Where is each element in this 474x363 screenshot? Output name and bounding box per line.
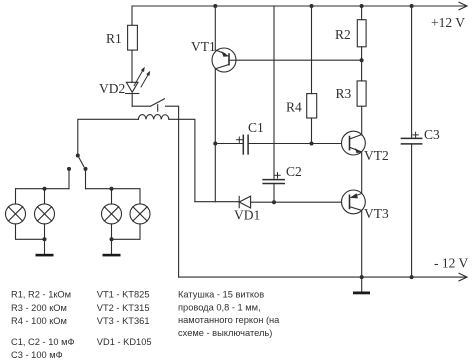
svg-text:R3: R3 [336,86,352,101]
svg-text:VT3: VT3 [364,206,389,221]
lamp HL1 [6,204,26,224]
switch SA1 blade [78,156,84,167]
node junction C3 -12V [410,275,414,279]
wire lamp C bottom lead [111,224,113,239]
wire coil right lead [169,119,195,201]
wire -12V bottom rail [179,276,466,278]
svg-text:C1: C1 [248,120,264,135]
LED VD2 [126,82,139,106]
svg-text:схеме - выключатель): схеме - выключатель) [178,328,272,338]
wire R3 to VT2 collector [361,106,363,135]
node C3 plus [413,132,418,137]
ground -12V rail [353,292,370,295]
svg-text:намотанного геркон (на: намотанного геркон (на [178,315,280,325]
node junction R2 +12V [360,4,364,8]
ground right [103,254,121,257]
svg-text:VT2 - KT315: VT2 - KT315 [97,303,150,313]
svg-text:+12 V: +12 V [431,15,465,30]
node junction C2 VD1 line [272,200,276,204]
wire lamp B top lead [44,189,46,204]
wire ground stem -12V [361,277,363,291]
wire R1 to VD2 [131,50,133,82]
node C2 plus [275,173,280,178]
diode VD1 [239,196,250,208]
node VD2 emission arrows [134,67,150,87]
wire VT1 base line [236,59,362,61]
resistor R3 [357,81,366,106]
node junction R4 C1 line [310,142,314,146]
node junction R4 +12V [310,4,314,8]
wire VD1 line left [195,201,239,203]
wire left contact down [68,169,70,189]
wire VT1 emitter to +12V [214,6,216,50]
svg-text:VT1: VT1 [191,39,216,54]
switch SA1 pivot [76,154,80,158]
node +12V arrowhead [459,2,467,10]
svg-text:C1, C2 - 10 мФ: C1, C2 - 10 мФ [11,337,75,347]
transistor VT3 [342,190,366,214]
wire left lamp pair top [16,189,70,204]
svg-text:провода 0,8 - 1 мм,: провода 0,8 - 1 мм, [178,302,261,312]
node parts list column 1 [11,290,75,361]
node junction VT1 +12V [213,4,217,8]
wire R4 bottom [311,118,313,144]
lamp HL3 [102,204,122,224]
svg-text:R1, R2 - 1кОм: R1, R2 - 1кОм [11,290,71,300]
wire VT2 emitter to VT3 emitter [361,152,363,194]
svg-text:VD1: VD1 [234,208,260,223]
wire lamp C top lead [111,189,113,204]
svg-text:VT2: VT2 [364,148,389,163]
node C1 plus [237,137,242,142]
node junction lamp C top [110,187,114,191]
svg-text:C3 - 100 мФ: C3 - 100 мФ [11,350,63,360]
switch reed blade [150,99,164,106]
wire right lamp pair top [86,189,141,204]
node junction lamp B bottom [43,237,47,241]
svg-text:C3: C3 [424,127,440,142]
node junction collector C1 [213,142,217,146]
svg-text:R1: R1 [106,31,122,46]
transistor VT2 [342,131,366,155]
switch SA1 right contact [84,167,88,171]
resistor R2 [357,20,366,47]
svg-text:R4: R4 [286,100,302,115]
wire left ground stem [44,239,46,254]
svg-text:Катушка - 15 витков: Катушка - 15 витков [178,290,264,300]
lamp HL2 [35,204,55,224]
wire left lamp pair bottom [16,224,45,239]
svg-text:C2: C2 [286,164,302,179]
capacitor C3 [401,6,421,277]
wire coil left lead [78,119,139,155]
transistor VT1 [212,48,236,72]
switch reed right lead [166,106,179,277]
wire R2 top [361,6,363,20]
wire right ground stem [111,239,113,254]
resistor R4 [307,94,317,118]
resistor R1 [128,25,138,50]
wire right contact down [85,169,87,189]
node reed actuator tick [157,105,159,111]
node parts list column 2 [97,290,152,347]
wire R4 top [311,6,313,94]
node -12V arrowhead [459,273,467,281]
svg-text:VT3 - KT361: VT3 - KT361 [97,316,150,326]
wire VT1 collector rail [214,69,216,202]
switch reed contact (left lead) [132,105,150,107]
ground left [36,254,54,257]
node junction base R2 R3 [360,58,364,62]
node junction C3 +12V [410,4,414,8]
svg-text:VD1 - KD105: VD1 - KD105 [97,337,152,347]
svg-text:VT1 - KT825: VT1 - KT825 [97,290,150,300]
svg-text:R2: R2 [335,27,351,42]
wire R2 to R3 [361,47,363,81]
wire VD1 line right [251,201,342,203]
svg-text:VD2: VD2 [99,81,125,96]
capacitor C2 [263,6,284,202]
lamp HL4 [130,204,150,224]
svg-text:R3 - 200 кОм: R3 - 200 кОм [11,303,67,313]
wire +12V top rail [132,6,466,25]
inductor L coil [138,115,169,120]
wire lamp B bottom lead [44,224,46,239]
node junction VT3 -12V [360,275,364,279]
switch SA1 left contact [67,167,71,171]
svg-text:R4 - 100 кОм: R4 - 100 кОм [11,316,67,326]
node junction lamp B top [43,187,47,191]
wire right lamp pair bottom [112,224,141,239]
node junction lamp C bottom [110,237,114,241]
wire VT3 collector to -12V [361,210,363,277]
node coil note column 3 [178,290,280,338]
svg-text:- 12 V: - 12 V [434,256,469,271]
capacitor C1 [215,135,341,154]
